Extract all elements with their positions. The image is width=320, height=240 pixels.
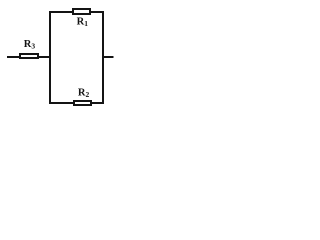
wire: top horizontal branch [49,11,104,13]
wire: left vertical rail (junction node) [49,11,51,104]
resistor R3 (series element in left lead) [20,54,38,58]
wire: right vertical rail (junction node) [102,11,104,104]
resistor R2 (bottom parallel branch) [74,101,91,105]
wire: bottom horizontal branch [49,102,104,104]
wire: right output terminal stub [103,56,114,58]
resistor R1 (top parallel branch) [73,9,90,14]
wire: left input lead through R3 [7,56,50,58]
